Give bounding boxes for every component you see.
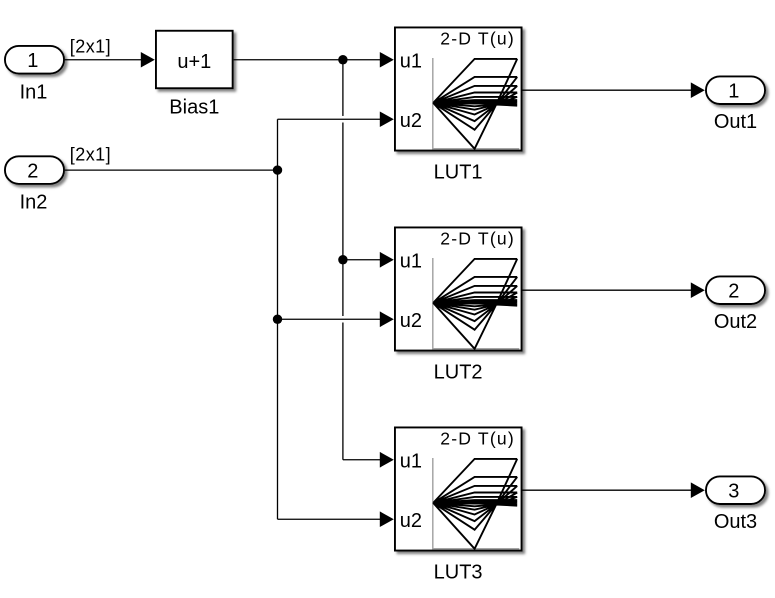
wire trunk corner to LUT3 u2 [278,511,394,527]
svg-text:u1: u1 [400,450,422,472]
svg-text:2-D T(u): 2-D T(u) [440,428,515,448]
svg-text:2-D T(u): 2-D T(u) [440,28,515,48]
junction dot on Bias1 output [338,55,347,64]
signal dimension label [2x1] on In2 wire [70,144,111,164]
wire LUT1 to Out1 [523,82,705,98]
svg-text:2-D T(u): 2-D T(u) [440,228,515,248]
wire trunk corner to LUT3 u1 [343,452,394,468]
svg-text:u2: u2 [400,110,422,132]
svg-text:3: 3 [728,481,739,503]
inport In2 [5,156,64,213]
svg-text:In1: In1 [20,81,48,103]
wire trunk to LUT2 u1 [343,252,394,268]
signal dimension label [2x1] on In1 wire [70,36,111,56]
svg-text:u1: u1 [400,250,422,272]
wire trunk In2 vertical [277,119,279,519]
junction dot trunk to LUT2 u1 [338,255,347,264]
2-D lookup table block LUT2 [395,227,522,383]
svg-text:u2: u2 [400,310,422,332]
wire In2 to trunk junction [65,169,278,171]
wire trunk to LUT2 u2 [278,311,394,327]
wire trunk from Bias1 junction down to LUT3 u1 [342,60,344,460]
svg-text:Out2: Out2 [714,311,757,333]
svg-text:LUT3: LUT3 [434,561,483,583]
2-D lookup table block LUT1 [395,27,522,183]
svg-text:u1: u1 [400,50,422,72]
outport Out2 [706,276,765,333]
junction dot trunk to LUT2 u2 [273,315,282,324]
svg-text:Bias1: Bias1 [169,97,219,119]
svg-text:LUT1: LUT1 [434,161,483,183]
inport In1 [5,46,64,103]
svg-text:Out1: Out1 [714,111,757,133]
wire LUT2 to Out2 [523,282,705,298]
svg-text:Out3: Out3 [714,511,757,533]
svg-text:In2: In2 [20,192,48,214]
outport Out3 [706,476,765,533]
svg-text:1: 1 [728,81,739,103]
wire LUT3 to Out3 [523,482,705,498]
2-D lookup table block LUT3 [395,427,522,583]
svg-text:2: 2 [27,160,38,182]
wire trunk to LUT1 u2 [278,112,394,128]
svg-text:u2: u2 [400,510,422,532]
svg-text:u+1: u+1 [177,51,211,73]
wire Bias1 to LUT1 u1 [234,52,394,68]
svg-text:2: 2 [728,281,739,303]
svg-text:1: 1 [27,50,38,72]
svg-text:[2x1]: [2x1] [70,144,111,164]
bias block Bias1 (u+1) [156,31,233,119]
svg-text:[2x1]: [2x1] [70,36,111,56]
wire In1 to Bias1 [65,52,155,68]
svg-text:LUT2: LUT2 [434,361,483,383]
outport Out1 [706,76,765,133]
junction dot In2 trunk [273,165,282,174]
